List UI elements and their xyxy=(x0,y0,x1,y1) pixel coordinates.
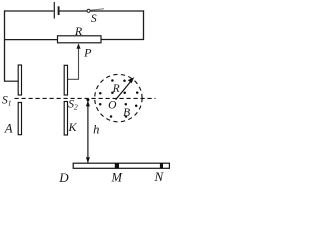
wire right vertical xyxy=(143,10,145,40)
wire battery to switch xyxy=(60,10,87,12)
wire right corner to rheostat xyxy=(102,39,144,41)
svg-text:D: D xyxy=(58,170,69,183)
battery E long plate xyxy=(53,2,55,19)
dimension line h xyxy=(87,101,89,163)
battery E short plate xyxy=(58,6,60,15)
radius R arrow from O xyxy=(116,80,132,99)
svg-text:R: R xyxy=(74,24,83,38)
electrode plate lower-left (A) xyxy=(18,103,21,135)
electrode plate lower-right (K) xyxy=(64,102,67,136)
field region dashed circle xyxy=(95,74,142,121)
tick mark N xyxy=(160,163,163,168)
electrode plate upper-right xyxy=(64,65,67,95)
wire switch to top-right corner xyxy=(90,10,144,12)
wire left vertical xyxy=(4,10,6,81)
svg-text:A: A xyxy=(4,121,13,135)
svg-text:S: S xyxy=(91,13,97,25)
switch S lever xyxy=(90,9,104,10)
wire to plate A xyxy=(4,80,18,82)
wire left to rheostat xyxy=(4,39,58,41)
wire top-left horizontal xyxy=(4,10,54,12)
node dot beam exit xyxy=(86,98,89,101)
svg-text:h: h xyxy=(93,123,99,137)
svg-text:K: K xyxy=(67,120,77,134)
tick mark M xyxy=(115,163,119,168)
svg-text:M: M xyxy=(110,171,122,183)
rheostat R box xyxy=(58,36,102,43)
svg-text:S2: S2 xyxy=(68,99,78,112)
electrode plate upper-left xyxy=(18,65,21,95)
slider P arrow xyxy=(78,47,80,80)
svg-text:P: P xyxy=(83,46,92,60)
wire P tap to plate K xyxy=(67,78,79,80)
svg-text:O: O xyxy=(108,99,117,111)
svg-text:R: R xyxy=(112,83,120,95)
screen plate D-N xyxy=(73,163,169,168)
svg-text:N: N xyxy=(153,169,164,183)
B field dots xyxy=(99,79,139,118)
svg-text:S1: S1 xyxy=(2,95,12,108)
svg-text:B: B xyxy=(123,107,130,119)
switch S pivot circle xyxy=(87,9,90,12)
dashed beam axis xyxy=(15,97,156,99)
